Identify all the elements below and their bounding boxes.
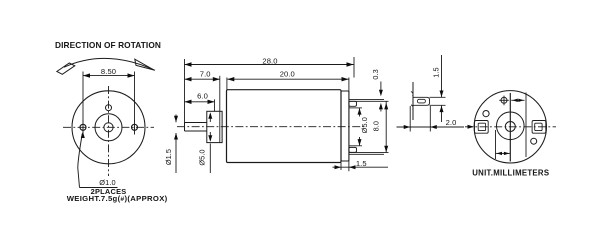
svg-text:0.3: 0.3 <box>371 69 380 79</box>
svg-text:Ø1.0: Ø1.0 <box>99 178 115 187</box>
svg-text:1.5: 1.5 <box>432 67 441 77</box>
svg-text:UNIT.MILLIMETERS: UNIT.MILLIMETERS <box>472 168 549 177</box>
svg-text:Ø5.0: Ø5.0 <box>197 149 206 165</box>
svg-text:8.0: 8.0 <box>371 121 380 131</box>
svg-text:Ø1.5: Ø1.5 <box>164 149 173 165</box>
svg-text:DIRECTION OF ROTATION: DIRECTION OF ROTATION <box>55 40 161 50</box>
svg-text:8.50: 8.50 <box>101 67 116 76</box>
svg-text:1.5: 1.5 <box>356 159 367 168</box>
svg-text:2.0: 2.0 <box>446 118 457 127</box>
svg-text:28.0: 28.0 <box>262 56 277 65</box>
svg-text:WEIGHT.7.5g(#)(APPROX): WEIGHT.7.5g(#)(APPROX) <box>67 194 168 203</box>
svg-text:Ø5.0: Ø5.0 <box>360 117 369 133</box>
svg-text:6.0: 6.0 <box>197 92 208 101</box>
svg-text:7.0: 7.0 <box>200 69 211 78</box>
svg-text:20.0: 20.0 <box>280 69 295 78</box>
